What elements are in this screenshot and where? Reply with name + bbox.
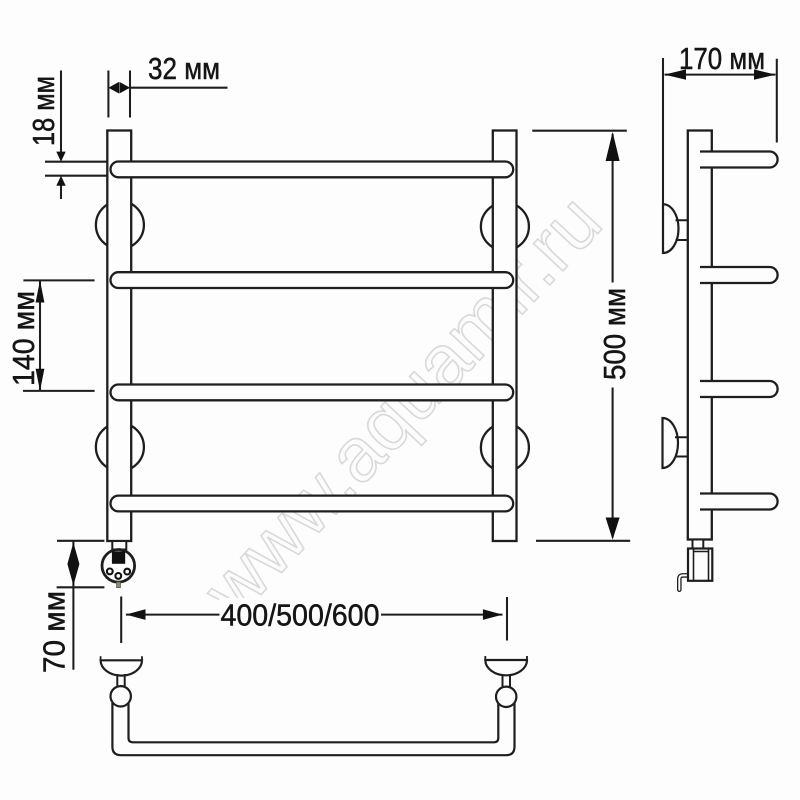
side view: lower wall bracket dome [663, 418, 679, 468]
dimension 500mm line [612, 134, 614, 538]
front view: wall mount circle bottom-right [481, 424, 529, 472]
dimension 70mm tick lines [57, 541, 105, 588]
bottom view: left wall bracket dome [101, 660, 142, 675]
svg-text:400/500/600: 400/500/600 [221, 599, 380, 633]
side view: vertical post [688, 131, 712, 540]
front view: left vertical post [107, 131, 131, 542]
dimension 140mm extension lines [23, 280, 95, 391]
front view: horizontal bar 3 [111, 385, 514, 401]
front view: plug contact ring left [107, 569, 113, 575]
side view: bar 3 [700, 381, 778, 397]
dimension 32mm arrows [108, 82, 119, 94]
svg-text:170 мм: 170 мм [679, 42, 765, 76]
bottom view: right bracket tick marks [485, 656, 527, 660]
bottom view: right wall bracket dome [485, 660, 527, 675]
dimension 70mm double arrow [67, 543, 79, 586]
bottom view: left bracket neck [117, 674, 124, 687]
dimension 400/500/600 line [126, 614, 503, 616]
dimension 500mm tick lines [532, 131, 630, 541]
front view: horizontal bar 2 [111, 272, 514, 288]
side view: wall extension line [662, 58, 664, 204]
dimension 400/500/600 extension lines [121, 597, 507, 644]
side view: housing inner edges [694, 549, 709, 581]
dimension 18mm extension lines [45, 162, 108, 176]
front view: horizontal bar 4 [111, 496, 514, 512]
front view: plug pin [117, 582, 121, 588]
side view: bar 1 [700, 152, 778, 168]
front view: heating element black plug [112, 551, 125, 564]
side view: upper wall bracket dome [663, 204, 679, 253]
dimension 170mm arrows [665, 69, 687, 79]
side view: heating element cable [679, 575, 690, 589]
front view: wall mount circle bottom-left [96, 423, 144, 471]
side view: heating element neck [693, 540, 704, 549]
dimension 500mm arrows [606, 132, 620, 161]
front view: plug contact ring middle [115, 573, 121, 579]
side view: bar 2 [700, 267, 778, 283]
svg-text:140 мм: 140 мм [7, 291, 41, 386]
bottom view: right bracket neck [503, 674, 511, 687]
side view: bar 4 [700, 494, 778, 510]
svg-text:500 мм: 500 мм [598, 288, 632, 380]
bottom view: U-shaped tube [112, 702, 514, 755]
side view: lower bracket neck [675, 437, 689, 456]
front view: wall mount circle top-left [96, 201, 144, 249]
front view: heating element round cap [102, 550, 135, 583]
dimension 140mm line [39, 280, 41, 391]
bottom view: right ball joint [496, 687, 516, 707]
svg-text:70 мм: 70 мм [38, 591, 72, 673]
dimension 170mm extension lines [776, 59, 778, 143]
svg-text:32 мм: 32 мм [148, 52, 220, 86]
side view: upper bracket neck [676, 220, 689, 240]
dimension 70mm line [72, 541, 74, 670]
front view: horizontal bar 1 [111, 162, 514, 178]
bottom view: left ball joint [111, 686, 131, 706]
front view: right vertical post [493, 131, 517, 542]
dimension 32mm extension lines [108, 71, 130, 118]
side view: heating element housing [688, 549, 712, 581]
front view: plug contact ring right [124, 569, 130, 575]
dimension 170mm line [665, 74, 776, 76]
bottom view: left bracket tick marks [101, 656, 142, 660]
front view: heating element neck [112, 541, 126, 550]
dimension 400/500/600 label background [220, 598, 382, 632]
dimension 32mm line [130, 87, 228, 89]
dimension 18mm line [60, 71, 62, 200]
dimension 140mm arrows [36, 280, 45, 302]
svg-text:18 мм: 18 мм [27, 76, 61, 146]
front view: wall mount circle top-right [481, 203, 529, 251]
dimension 18mm arrows [56, 152, 65, 162]
watermark www.aquamir.ru [186, 179, 618, 633]
dimension 400/500/600 arrows [126, 609, 146, 620]
